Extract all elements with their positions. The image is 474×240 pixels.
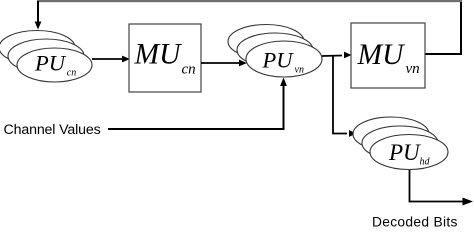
svg-text:PU: PU [388, 140, 421, 165]
svg-text:Decoded Bits: Decoded Bits [372, 215, 458, 229]
arrowhead into MU_cn (right) [122, 56, 130, 63]
svg-text:cn: cn [67, 68, 76, 79]
wire junction branch down to PU_hd [333, 56, 347, 134]
wire PU_hd to Decoded Bits output [410, 170, 465, 202]
wire feedback from MU_vn output up right side [425, 2, 461, 54]
memory unit MU_vn [351, 23, 425, 88]
wire feedback drop into PU_cn [37, 1, 39, 26]
wire feedback top horizontal run (clipped at page edge) [37, 0, 462, 2]
arrowhead into PU_cn (down) [35, 22, 42, 30]
arrowhead into PU_vn (right) [239, 60, 247, 67]
wire Channel Values input to PU_vn [108, 86, 284, 129]
svg-text:hd: hd [420, 157, 431, 168]
processing unit stack PU_vn [228, 25, 322, 78]
arrowhead into PU_vn bottom (up) [280, 78, 287, 87]
processing unit stack PU_cn [0, 31, 92, 83]
arrowhead output (right) [463, 198, 474, 206]
svg-text:vn: vn [295, 65, 304, 76]
svg-text:vn: vn [406, 61, 420, 77]
svg-text:PU: PU [262, 48, 295, 73]
arrowhead into PU_hd (right) [349, 130, 357, 137]
wire MU_cn to PU_vn [201, 62, 240, 64]
arrowhead into MU_vn (right) [344, 52, 352, 59]
svg-text:PU: PU [34, 51, 67, 76]
svg-text:MU: MU [134, 39, 183, 71]
memory unit MU_cn [129, 24, 201, 92]
wire PU_cn to MU_cn [92, 58, 123, 60]
wire PU_vn to MU_vn with junction node [322, 55, 342, 58]
svg-text:cn: cn [182, 61, 196, 77]
svg-text:Channel Values: Channel Values [4, 122, 101, 138]
processing unit stack PU_hd [353, 117, 448, 170]
svg-text:MU: MU [357, 39, 406, 71]
